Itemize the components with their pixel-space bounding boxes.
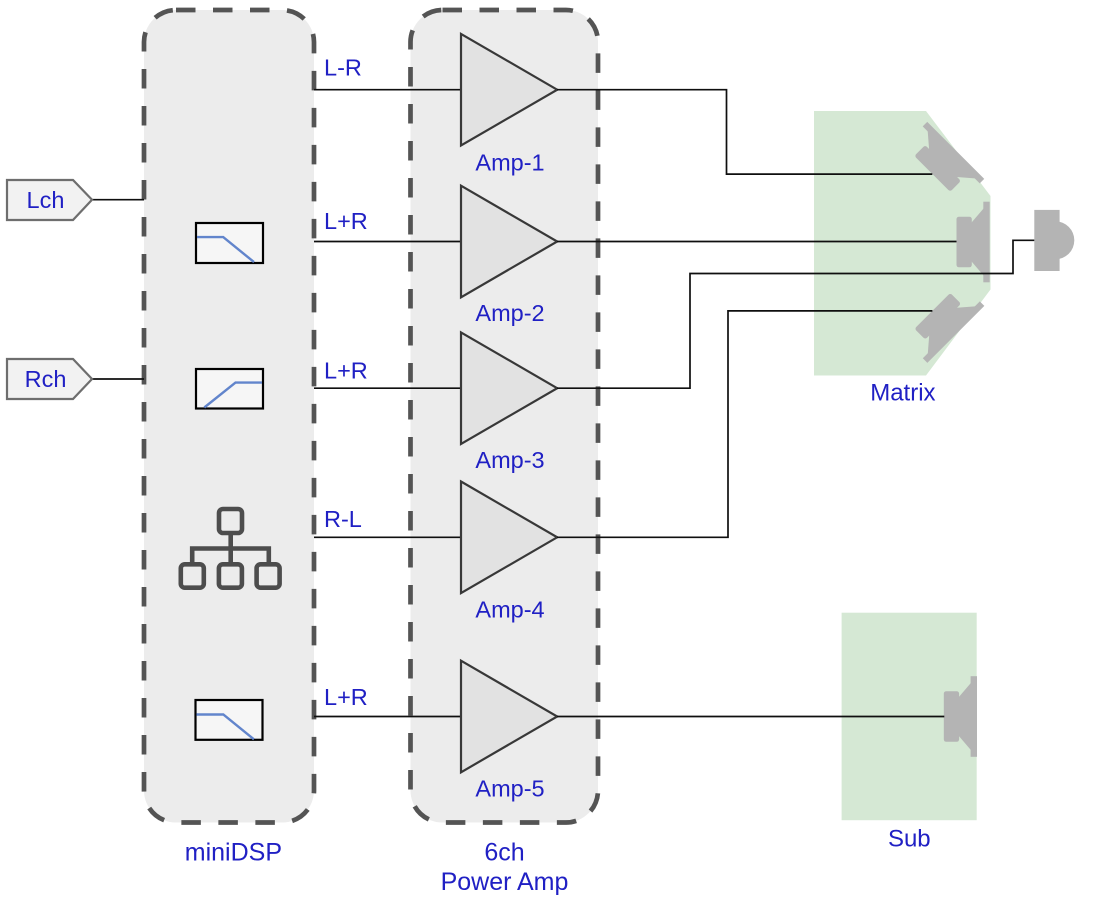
high-pass filter icon: [196, 369, 263, 409]
Matrix green enclosure: [814, 111, 991, 376]
wire Amp-2 to middle matrix speaker: [557, 241, 957, 243]
tweeter (listener): [1034, 210, 1074, 271]
wire miniDSP to Amp-5: [314, 716, 461, 718]
amplifier Amp-3: [461, 332, 557, 444]
amplifier Amp-4: [461, 482, 557, 594]
svg-text:6ch: 6ch: [484, 838, 524, 866]
wire miniDSP to Amp-4: [314, 536, 461, 538]
sub speaker: [944, 676, 977, 757]
svg-text:Sub: Sub: [888, 825, 931, 852]
wire Rch to miniDSP: [92, 378, 144, 380]
svg-text:Power Amp: Power Amp: [441, 868, 569, 896]
svg-text:L+R: L+R: [324, 208, 368, 234]
bottom matrix speaker (rotated 45): [904, 282, 984, 362]
wire miniDSP to Amp-3: [314, 387, 461, 389]
wire Lch to miniDSP: [92, 199, 144, 201]
wire miniDSP to Amp-1: [314, 89, 461, 91]
6ch Power Amp container box: [411, 10, 599, 823]
amplifier Amp-1: [461, 34, 557, 146]
svg-text:L+R: L+R: [324, 357, 368, 383]
miniDSP container box: [144, 10, 314, 823]
wire Amp-5 to sub speaker: [557, 716, 944, 718]
amplifier Amp-5: [461, 661, 557, 773]
wire Amp-1 to top matrix speaker: [557, 90, 932, 174]
svg-text:Lch: Lch: [27, 187, 65, 213]
Sub green enclosure: [842, 613, 977, 821]
Rch input tag: [7, 359, 92, 399]
svg-text:miniDSP: miniDSP: [185, 838, 282, 866]
Lch input tag: [7, 180, 92, 220]
amplifier Amp-2: [461, 186, 557, 298]
routing tree icon: [181, 509, 280, 588]
wire miniDSP to Amp-2: [314, 241, 461, 243]
svg-text:Amp-5: Amp-5: [475, 776, 544, 802]
top matrix speaker (rotated -45): [904, 122, 984, 202]
svg-text:L+R: L+R: [324, 684, 368, 710]
wire Amp-4 to bottom matrix speaker: [557, 311, 932, 537]
svg-text:Matrix: Matrix: [870, 380, 935, 407]
low-pass filter icon 1: [196, 223, 263, 263]
svg-text:Amp-2: Amp-2: [475, 300, 544, 326]
middle matrix speaker: [957, 202, 990, 283]
svg-text:Amp-4: Amp-4: [475, 596, 544, 622]
svg-text:R-L: R-L: [324, 506, 362, 532]
svg-text:Rch: Rch: [25, 366, 67, 392]
low-pass filter icon 2: [196, 700, 263, 740]
svg-text:Amp-3: Amp-3: [475, 447, 544, 473]
svg-text:L-R: L-R: [324, 55, 362, 81]
svg-text:Amp-1: Amp-1: [475, 150, 544, 176]
wire Amp-3 to tweeter: [557, 240, 1034, 388]
